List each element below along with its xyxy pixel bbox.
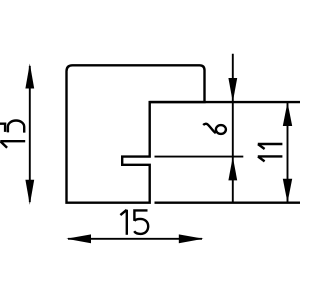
label 11: second digit 1 [258, 156, 283, 161]
dimension 11: arrow up [283, 102, 292, 126]
dimension 6: arrow down to panel top [228, 78, 237, 102]
label 15 left: digit 5 [0, 121, 24, 133]
label 15 bottom: digit 5 [134, 210, 148, 234]
dimension 11: arrow down [283, 179, 292, 203]
dimension 15 left: arrow up [25, 64, 34, 89]
label 15 left: digit 1 [0, 141, 25, 148]
dimension 6: vertical line [232, 54, 234, 203]
label 11: first digit 1 [258, 144, 283, 149]
dimension 15 bottom: arrow left [66, 234, 91, 243]
insert panel bottom edge [155, 201, 301, 203]
dimension 15 bottom: line [68, 238, 202, 240]
dimension 15 left: line [29, 66, 31, 202]
dimension 11: vertical line [287, 102, 289, 203]
dimension 15 bottom: arrow right [179, 234, 204, 243]
profile body: left frame section 15x15 with step and open notch [67, 65, 205, 202]
dimension 6: extension line [155, 156, 244, 158]
dimension 15 left: arrow down [25, 180, 34, 205]
insert panel top edge [150, 101, 300, 103]
dimension 6: arrow up to extension line [228, 157, 237, 181]
label 15 bottom: digit 1 [120, 210, 126, 235]
label 6 [203, 124, 226, 134]
